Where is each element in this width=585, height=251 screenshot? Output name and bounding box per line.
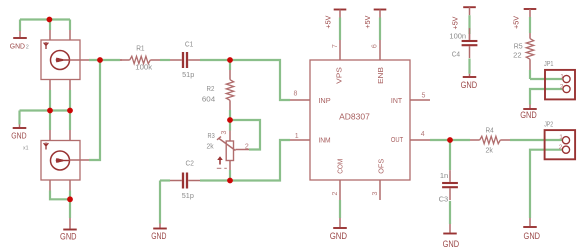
svg-text:ENB: ENB xyxy=(376,67,385,84)
svg-text:COM: COM xyxy=(336,159,345,174)
svg-text:GND: GND xyxy=(443,239,460,250)
svg-text:2: 2 xyxy=(560,84,564,91)
svg-text:+5V: +5V xyxy=(451,16,460,30)
svg-text:C2: C2 xyxy=(186,158,194,167)
svg-text:+5V: +5V xyxy=(323,15,332,29)
svg-text:3: 3 xyxy=(372,191,379,195)
svg-text:604: 604 xyxy=(202,94,215,103)
svg-text:7: 7 xyxy=(332,44,339,48)
svg-text:22: 22 xyxy=(513,50,521,59)
svg-text:OFS: OFS xyxy=(377,159,386,174)
svg-text:5: 5 xyxy=(422,92,426,99)
svg-text:INT: INT xyxy=(391,96,403,105)
svg-text:+5V: +5V xyxy=(363,15,372,29)
svg-text:INP: INP xyxy=(318,96,330,105)
svg-text:C1: C1 xyxy=(185,40,193,49)
svg-text:JP1: JP1 xyxy=(544,59,554,68)
svg-text:OUT: OUT xyxy=(391,135,404,144)
svg-text:GND: GND xyxy=(524,231,541,242)
svg-text:R2: R2 xyxy=(207,84,215,93)
svg-text:R3: R3 xyxy=(208,131,215,140)
svg-text:GND: GND xyxy=(520,110,537,121)
svg-text:2: 2 xyxy=(245,144,249,151)
svg-text:51p: 51p xyxy=(182,70,194,79)
svg-text:8: 8 xyxy=(294,91,298,98)
svg-text:R5: R5 xyxy=(514,41,523,50)
svg-text:JP2: JP2 xyxy=(544,120,553,129)
svg-text:2k: 2k xyxy=(207,142,214,151)
svg-text:GND: GND xyxy=(151,231,166,242)
svg-text:3: 3 xyxy=(221,131,228,135)
svg-text:2k: 2k xyxy=(486,145,494,154)
svg-text:GND: GND xyxy=(10,44,25,51)
svg-text:GND: GND xyxy=(461,80,478,91)
svg-text:6: 6 xyxy=(372,44,379,48)
svg-text:2: 2 xyxy=(559,144,563,151)
svg-text:1n: 1n xyxy=(440,171,448,180)
svg-text:GND: GND xyxy=(330,231,348,242)
svg-text:1: 1 xyxy=(295,133,299,140)
svg-text:GND: GND xyxy=(11,131,26,140)
svg-text:1: 1 xyxy=(559,134,563,141)
svg-text:VPS: VPS xyxy=(335,67,344,84)
svg-text:AD8307: AD8307 xyxy=(339,113,370,122)
svg-text:51p: 51p xyxy=(182,191,194,200)
svg-text:4: 4 xyxy=(421,131,425,138)
svg-text:100k: 100k xyxy=(135,63,152,72)
svg-text:1: 1 xyxy=(560,73,564,80)
svg-text:C4: C4 xyxy=(452,50,460,59)
svg-text:C3: C3 xyxy=(439,195,449,204)
svg-text:+5V: +5V xyxy=(512,15,521,29)
svg-text:100n: 100n xyxy=(449,32,466,41)
svg-text:2: 2 xyxy=(332,191,339,195)
svg-text:2: 2 xyxy=(26,45,29,51)
svg-text:R4: R4 xyxy=(486,126,494,135)
svg-text:x1: x1 xyxy=(23,145,29,151)
svg-text:R1: R1 xyxy=(136,44,144,53)
svg-text:INM: INM xyxy=(318,135,330,144)
svg-text:GND: GND xyxy=(60,232,77,243)
